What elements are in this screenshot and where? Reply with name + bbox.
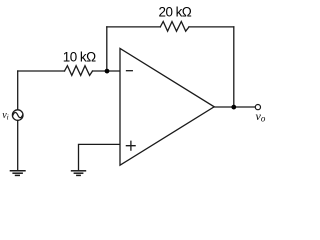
- node junction dot (output / feedback): [231, 105, 236, 110]
- wire R1 to op-amp inverting input: [93, 70, 120, 72]
- svg-text:20 kΩ: 20 kΩ: [159, 4, 192, 19]
- wire source bottom to ground: [17, 120, 19, 170]
- wire feedback top right: [189, 26, 234, 28]
- svg-text:10 kΩ: 10 kΩ: [63, 50, 96, 65]
- op-amp plus sign: [126, 141, 135, 150]
- AC source vi: [12, 110, 23, 121]
- resistor R1 10 kOhm: [65, 66, 93, 76]
- ground (source): [10, 171, 26, 176]
- wire left horizontal to R1: [18, 70, 65, 72]
- op-amp minus sign: [127, 70, 133, 72]
- wire feedback top left: [107, 26, 161, 28]
- svg-text:vo: vo: [256, 109, 266, 124]
- wire feedback vertical left: [106, 27, 108, 71]
- op-amp U1: [120, 48, 214, 165]
- ground (noninverting input): [71, 171, 86, 176]
- resistor R2 20 kOhm: [160, 22, 189, 32]
- wire source top to input level: [17, 71, 19, 110]
- wire feedback vertical right: [233, 27, 235, 107]
- output terminal open circle: [255, 105, 260, 110]
- svg-text:vi: vi: [2, 110, 9, 122]
- node junction dot (inverting input / R1 / feedback): [105, 69, 110, 74]
- wire noninverting input: [79, 144, 120, 170]
- sine symbol inside source: [13, 113, 23, 118]
- wire output: [214, 106, 255, 108]
